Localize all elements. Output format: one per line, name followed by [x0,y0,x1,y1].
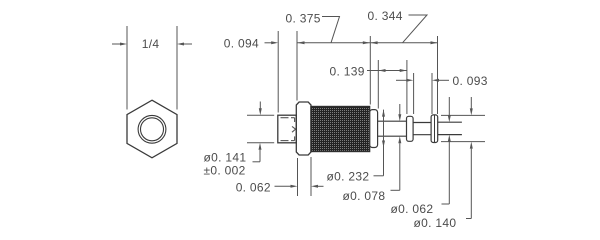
ext line washer1 left [406,60,408,114]
ext line collar right [377,60,379,109]
ext line knurl right [369,36,371,105]
washer 2 [431,115,438,143]
ext line washer2 left [431,73,433,114]
ext line cap top (horizontal) [247,114,274,116]
side view: slotted end cap [278,115,297,143]
svg-text:0. 375: 0. 375 [286,12,321,26]
dim 0.062 flange right arrow [311,185,324,188]
hidden bore dashed top [281,118,295,122]
dim 0.141 bottom arrow and leader [253,143,262,162]
svg-text:0. 093: 0. 093 [453,74,488,88]
collar step [370,110,378,148]
dim 0.062 flange left arrow [275,185,298,188]
dim 1/4 right arrow [177,43,192,46]
hex view: extension line left [126,26,128,110]
dim 0.141 top arrow [259,102,262,116]
svg-text:ø0. 140: ø0. 140 [414,216,457,230]
dim 0.344 line with arrows [371,41,438,44]
ext line washer1 right [413,73,415,114]
svg-text:ø0. 232: ø0. 232 [327,170,370,184]
hex view: extension line right [176,26,178,110]
hex hole inner circle [141,118,164,141]
svg-text:1/4: 1/4 [142,37,160,51]
svg-text:0. 139: 0. 139 [330,65,365,79]
dim 0.094 arrow [265,41,279,44]
dim 0.375 leader [322,17,340,43]
svg-text:0. 062: 0. 062 [236,181,271,195]
dim 0.078 upper arrow [398,104,401,121]
svg-text:ø0. 078: ø0. 078 [343,189,386,203]
svg-text:ø0. 141: ø0. 141 [204,150,247,164]
dim 0.078 lower arrow and leader [391,136,402,190]
shaft section 1 top [378,120,407,122]
knurled body [311,107,370,152]
dim 0.232 leader with arrows [374,110,386,176]
ext line cap bottom (horizontal) [247,142,274,144]
ext line cap left [277,31,279,113]
svg-text:0. 344: 0. 344 [368,9,403,23]
ext line washer2 bottom (horizontal) [441,141,485,143]
flange [296,102,311,155]
lead wire bottom [438,134,462,136]
lead wire top [438,121,462,123]
hex body [127,100,177,158]
ext line flange left lower [297,158,299,196]
ext line washer2 right [437,36,439,114]
ext line washer2 top (horizontal) [441,114,485,116]
hex hole outer circle [138,115,166,143]
svg-text:0. 094: 0. 094 [224,37,259,51]
ext line flange right lower [310,157,312,196]
dim 0.139 line with arrows [367,69,407,72]
dim 0.140 upper arrow [470,97,473,115]
washer 2 inner line [434,115,436,142]
dim 0.344 leader [403,15,428,43]
hidden cone chevron [292,126,296,132]
dim 0.140 lower arrow and leader [466,142,473,219]
svg-text:ø0. 062: ø0. 062 [391,202,434,216]
dim 0.093 left arrow [396,79,413,82]
hidden bore dashed bottom [281,136,295,140]
washer 1 [407,116,414,141]
shaft section 2 bottom [413,134,431,136]
shaft section 2 top [413,122,431,124]
ext line flange left [296,31,298,101]
dim 1/4 left arrow [112,43,127,46]
dim 0.062 lead lower arrow and leader [442,135,451,204]
dim 0.375 line with arrows [298,41,371,44]
dim 0.093 right arrow [432,79,449,82]
svg-text:±0. 002: ±0. 002 [204,163,246,177]
shaft section 1 bottom [378,135,407,137]
dim 0.062 lead upper arrow [448,97,451,122]
